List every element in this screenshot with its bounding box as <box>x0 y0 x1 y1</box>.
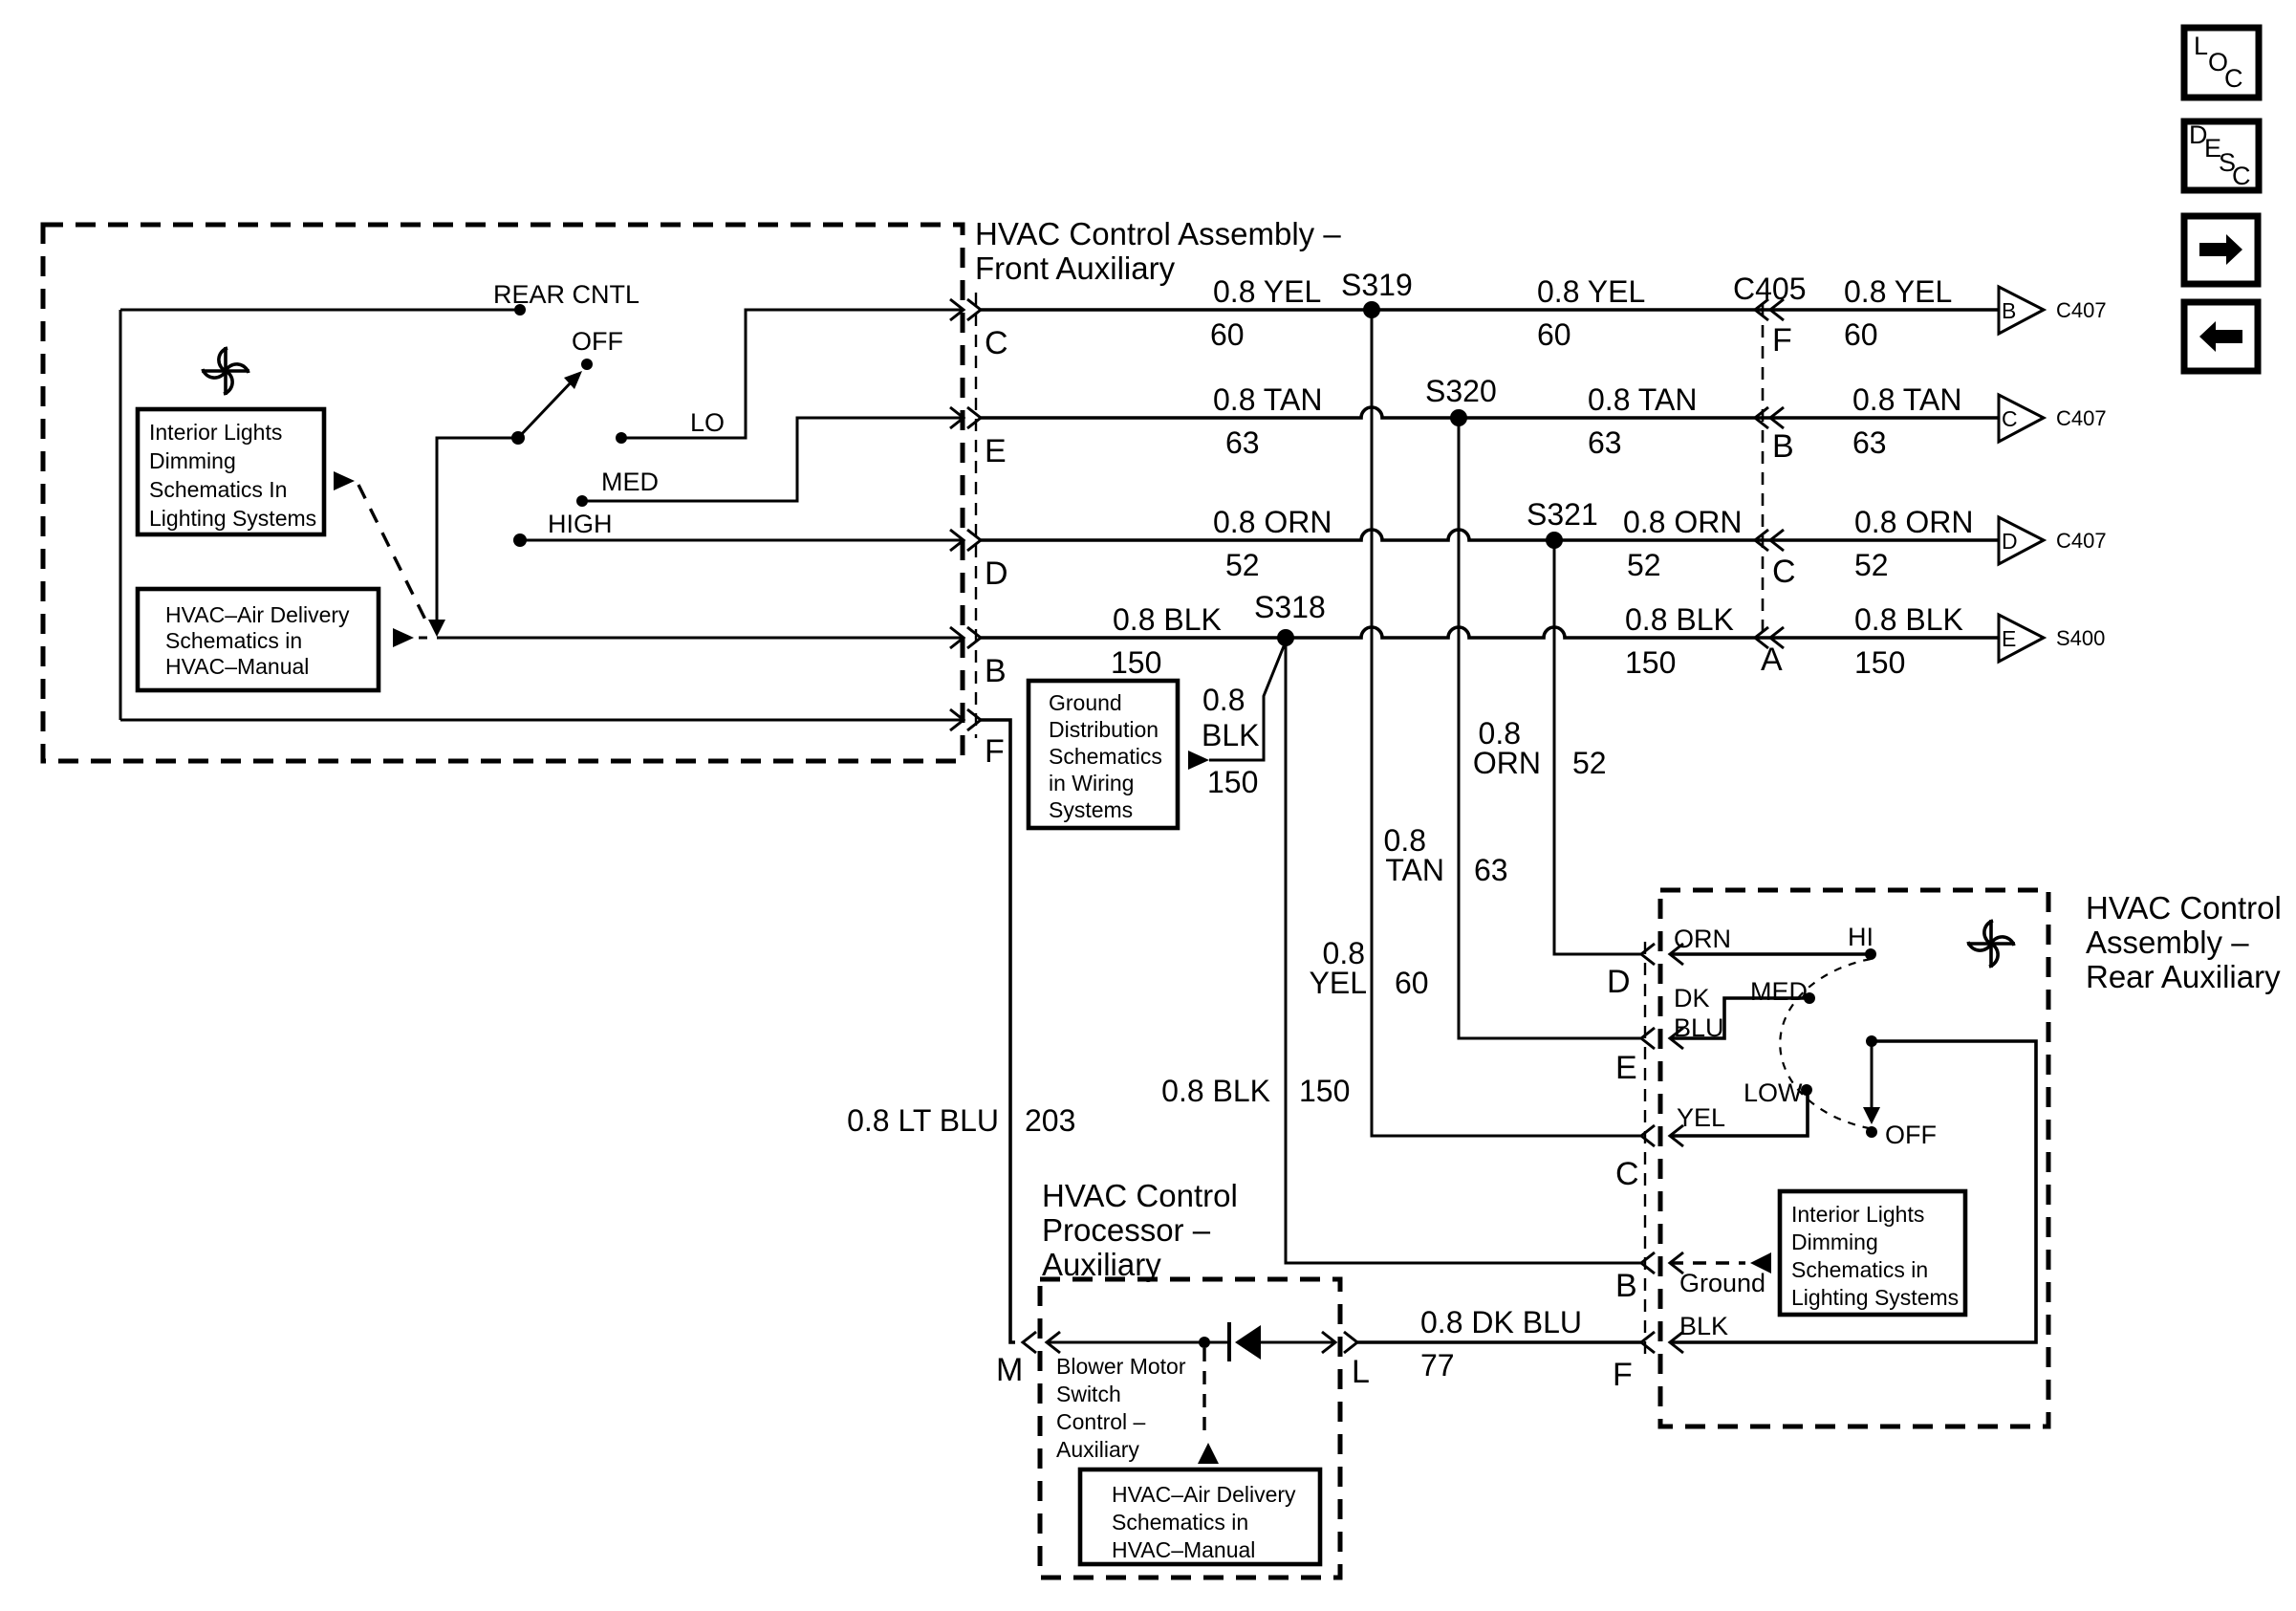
svg-text:C407: C407 <box>2056 529 2107 553</box>
node HIGH terminal dot <box>513 533 527 547</box>
switch wiper arrowhead front <box>564 371 582 389</box>
svg-text:TAN: TAN <box>1385 853 1444 887</box>
svg-text:HVAC Control: HVAC Control <box>2086 890 2282 925</box>
svg-text:150: 150 <box>1854 645 1905 680</box>
L pin chevrons <box>1322 1332 1357 1353</box>
title HVAC Control Assembly - Front Auxiliary <box>975 216 1341 286</box>
svg-text:Switch: Switch <box>1056 1382 1121 1406</box>
riser label 0.8 LT BLU 203 <box>847 1103 1075 1138</box>
rear box connector dashed line <box>1644 942 1646 1358</box>
ref triangle from interior lights box <box>334 471 355 490</box>
svg-text:52: 52 <box>1225 548 1260 582</box>
triangle connector B to C407 <box>1999 287 2107 334</box>
svg-text:MED: MED <box>601 468 659 496</box>
legend box DESC <box>2184 120 2259 190</box>
svg-text:in Wiring: in Wiring <box>1049 771 1134 795</box>
svg-text:OFF: OFF <box>1885 1121 1937 1149</box>
node OFF terminal dot (front switch) <box>581 359 593 370</box>
svg-text:S400: S400 <box>2056 626 2105 650</box>
wire dk blu L to rear F <box>1357 1340 1641 1344</box>
splice S318 <box>1277 629 1294 646</box>
svg-text:C: C <box>1772 554 1796 590</box>
svg-text:F: F <box>1772 322 1792 359</box>
svg-text:0.8 BLK: 0.8 BLK <box>1161 1074 1270 1108</box>
svg-text:ORN: ORN <box>1473 746 1541 780</box>
dashed ground ref line <box>1670 1261 1745 1264</box>
rear aux dashed box <box>1660 890 2048 1426</box>
svg-text:Auxiliary: Auxiliary <box>1056 1437 1139 1462</box>
svg-text:HVAC–Air Delivery: HVAC–Air Delivery <box>165 602 350 627</box>
legend box right arrow <box>2184 216 2258 284</box>
svg-text:LO: LO <box>690 408 725 437</box>
svg-text:C: C <box>2002 406 2018 431</box>
hvac air delivery box bottom <box>1080 1469 1320 1564</box>
svg-text:Blower Motor: Blower Motor <box>1056 1354 1186 1379</box>
svg-text:C: C <box>985 325 1008 361</box>
wire switch common to vertical <box>437 438 518 621</box>
wire rear cntl horizontal <box>120 309 520 312</box>
svg-text:0.8 BLK: 0.8 BLK <box>1113 602 1222 637</box>
riser label 0.8 TAN 63 <box>1384 823 1508 887</box>
svg-text:HIGH: HIGH <box>548 510 613 538</box>
off-arm arrowhead <box>1863 1107 1880 1124</box>
svg-text:63: 63 <box>1852 425 1887 460</box>
svg-text:E: E <box>1615 1050 1637 1086</box>
dashed reference diagonal <box>358 485 427 623</box>
C405 chevrons on wire C <box>1755 299 1784 320</box>
wire B blk main (hops at 1435,1526,1626) <box>981 627 1999 638</box>
svg-text:Interior Lights: Interior Lights <box>149 420 282 445</box>
front box connector dashed line <box>975 293 977 738</box>
svg-text:Assembly –: Assembly – <box>2086 925 2249 960</box>
svg-text:Front Auxiliary: Front Auxiliary <box>975 250 1176 286</box>
processor dashed box <box>1040 1279 1340 1578</box>
wire rear C to LOW <box>1670 1090 1808 1136</box>
node MED terminal dot <box>576 495 588 507</box>
svg-text:150: 150 <box>1207 765 1258 799</box>
svg-text:F: F <box>985 733 1005 770</box>
svg-text:Lighting Systems: Lighting Systems <box>1791 1285 1959 1310</box>
svg-text:0.8 YEL: 0.8 YEL <box>1537 274 1645 309</box>
hvac air delivery box front <box>138 589 379 690</box>
switch wiper arm front <box>518 379 574 438</box>
svg-text:OFF: OFF <box>572 327 623 356</box>
wire B interior <box>437 637 964 640</box>
svg-text:B: B <box>2002 298 2016 323</box>
svg-text:0.8 LT BLU: 0.8 LT BLU <box>847 1103 999 1138</box>
ground distribution text <box>1049 690 1162 822</box>
C405 chevrons on wire E <box>1755 407 1784 428</box>
blk riser from S318 to rear pin B wire <box>1286 638 1641 1263</box>
legend box left arrow <box>2184 302 2258 371</box>
svg-text:S318: S318 <box>1254 590 1326 624</box>
svg-text:0.8 YEL: 0.8 YEL <box>1213 274 1321 309</box>
svg-text:S320: S320 <box>1425 374 1497 408</box>
interior lights dimming box rear <box>1780 1191 1965 1315</box>
svg-text:BLK: BLK <box>1202 718 1259 752</box>
label DK BLU rear <box>1674 984 1724 1042</box>
svg-text:0.8 YEL: 0.8 YEL <box>1844 274 1952 309</box>
svg-text:52: 52 <box>1854 548 1889 582</box>
svg-text:203: 203 <box>1025 1103 1075 1138</box>
wire HIGH to pin D <box>520 539 964 542</box>
svg-text:Schematics in: Schematics in <box>165 628 302 653</box>
lt blu riser from pin F <box>981 720 1015 1342</box>
svg-text:63: 63 <box>1588 425 1622 460</box>
svg-text:Distribution: Distribution <box>1049 717 1159 742</box>
svg-text:A: A <box>1761 642 1783 678</box>
ref triangle ground <box>1750 1252 1771 1274</box>
rear pin B chevrons <box>1641 1252 1683 1274</box>
orn riser from S321 to rear pin D <box>1554 540 1641 954</box>
node LOW dot <box>1801 1084 1812 1096</box>
svg-text:HVAC–Manual: HVAC–Manual <box>1112 1537 1255 1562</box>
hvac air delivery text front <box>165 602 350 679</box>
svg-text:Dimming: Dimming <box>1791 1230 1878 1254</box>
svg-text:Ground: Ground <box>1679 1269 1765 1297</box>
svg-text:0.8 ORN: 0.8 ORN <box>1213 505 1332 539</box>
svg-text:MED: MED <box>1750 977 1808 1006</box>
svg-text:YEL: YEL <box>1310 966 1367 1000</box>
triangle connector E to S400 <box>1999 615 2105 662</box>
svg-text:E: E <box>985 433 1007 469</box>
svg-text:ORN: ORN <box>1674 925 1731 953</box>
wire rear E to MED <box>1670 998 1809 1038</box>
front pin chevrons F <box>950 709 981 730</box>
svg-text:C: C <box>2224 64 2243 93</box>
wire rear D to HI <box>1670 952 1871 956</box>
rear switch dashed arc <box>1780 959 1871 1128</box>
rear pin C chevrons <box>1641 1125 1683 1146</box>
title HVAC Control Processor - Auxiliary <box>1042 1178 1238 1282</box>
node LO terminal dot <box>616 432 627 444</box>
svg-text:Lighting Systems: Lighting Systems <box>149 506 316 531</box>
node switch common dot front <box>511 431 525 445</box>
svg-text:0.8 TAN: 0.8 TAN <box>1213 382 1322 417</box>
rear pin E chevrons <box>1641 1028 1683 1049</box>
svg-text:C: C <box>2232 162 2251 190</box>
svg-text:60: 60 <box>1395 966 1429 1000</box>
wire MED to pin E <box>582 418 964 501</box>
C405 chevrons on wire D <box>1755 530 1784 551</box>
svg-text:Dimming: Dimming <box>149 448 236 473</box>
svg-text:Ground: Ground <box>1049 690 1122 715</box>
arrowhead down at junction B <box>428 620 445 637</box>
ref triangle from ground box <box>1188 751 1209 770</box>
connector C405 dashed line <box>1762 304 1765 641</box>
svg-text:Interior Lights: Interior Lights <box>1791 1202 1924 1227</box>
svg-text:Schematics In: Schematics In <box>149 477 287 502</box>
svg-text:Auxiliary: Auxiliary <box>1042 1247 1161 1282</box>
svg-text:HI: HI <box>1848 923 1874 951</box>
splice S321 <box>1546 532 1563 549</box>
node REAR CNTL terminal dot <box>514 304 526 316</box>
M pin chevrons <box>1023 1332 1060 1353</box>
interior lights dimming box front <box>138 409 324 534</box>
front HVAC control assembly dashed box <box>43 225 963 761</box>
front pin chevrons E <box>950 407 981 428</box>
wire off-arm to rear F <box>1670 1041 2036 1342</box>
svg-text:HVAC Control Assembly –: HVAC Control Assembly – <box>975 216 1341 251</box>
svg-text:B: B <box>985 653 1007 689</box>
wire LO to pin C <box>621 310 964 438</box>
node OFF dot rear <box>1866 1126 1877 1138</box>
svg-text:L: L <box>1352 1354 1370 1390</box>
tan riser from S320 to rear pin E <box>1459 418 1641 1038</box>
ref triangle from hvac air box <box>393 628 414 647</box>
ref triangle up <box>1198 1443 1219 1464</box>
svg-text:BLK: BLK <box>1679 1312 1728 1340</box>
wire ground ref to S318 <box>1209 642 1286 760</box>
svg-text:Control –: Control – <box>1056 1409 1146 1434</box>
svg-text:0.8 BLK: 0.8 BLK <box>1625 602 1734 637</box>
wire E tan main (hop at 1435) <box>981 407 1999 418</box>
wire diode to L <box>1261 1341 1335 1344</box>
svg-text:63: 63 <box>1225 425 1260 460</box>
svg-text:0.8 BLK: 0.8 BLK <box>1854 602 1963 637</box>
svg-text:Processor –: Processor – <box>1042 1212 1211 1248</box>
svg-text:C407: C407 <box>2056 406 2107 430</box>
hvac air delivery text bottom <box>1112 1482 1296 1562</box>
svg-text:C: C <box>1615 1156 1639 1192</box>
svg-text:60: 60 <box>1844 317 1878 352</box>
svg-text:L: L <box>2194 32 2208 60</box>
svg-text:0.8 TAN: 0.8 TAN <box>1588 382 1697 417</box>
rear pin F chevrons <box>1641 1332 1683 1353</box>
C405 chevrons on wire B <box>1755 627 1784 648</box>
ground distribution box <box>1029 681 1178 828</box>
front pin chevrons B <box>950 627 981 648</box>
svg-text:C405: C405 <box>1733 272 1807 306</box>
interior lights dimming text front <box>149 420 316 531</box>
svg-text:LOW: LOW <box>1744 1078 1803 1107</box>
svg-text:150: 150 <box>1111 645 1161 680</box>
dashed ref line from diode tap <box>1202 1348 1205 1436</box>
splice S320 <box>1450 409 1467 426</box>
svg-text:60: 60 <box>1210 317 1245 352</box>
svg-text:0.8 ORN: 0.8 ORN <box>1854 505 1973 539</box>
off-arm arrow line <box>1871 1041 1874 1109</box>
svg-text:HVAC Control: HVAC Control <box>1042 1178 1238 1213</box>
fan icon rear <box>1967 920 2015 968</box>
wire F interior <box>120 719 964 722</box>
rear pin D chevrons <box>1641 944 1683 965</box>
triangle connector C to C407 <box>1999 395 2107 442</box>
interior lights dimming text rear <box>1791 1202 1959 1310</box>
blower motor switch control text <box>1056 1354 1186 1462</box>
svg-text:S319: S319 <box>1341 268 1413 302</box>
svg-text:77: 77 <box>1420 1348 1455 1382</box>
svg-text:0.8: 0.8 <box>1202 683 1245 717</box>
svg-text:60: 60 <box>1537 317 1571 352</box>
title HVAC Control Assembly - Rear Auxiliary <box>2086 890 2282 994</box>
front pin chevrons D <box>950 530 981 551</box>
svg-text:E: E <box>2002 626 2016 651</box>
node off-arm dot <box>1866 1035 1877 1047</box>
node diode tap dot <box>1199 1337 1210 1348</box>
svg-text:HVAC–Air Delivery: HVAC–Air Delivery <box>1112 1482 1296 1507</box>
svg-text:B: B <box>1772 428 1794 465</box>
svg-text:C407: C407 <box>2056 298 2107 322</box>
svg-text:S321: S321 <box>1527 497 1598 532</box>
svg-text:Schematics in: Schematics in <box>1791 1257 1928 1282</box>
node HI dot <box>1865 948 1876 960</box>
svg-text:YEL: YEL <box>1677 1103 1725 1132</box>
node MED dot rear <box>1804 992 1815 1004</box>
svg-text:Schematics in: Schematics in <box>1112 1510 1248 1535</box>
riser label 0.8 YEL 60 <box>1310 936 1429 1000</box>
fan icon front <box>202 347 249 395</box>
svg-text:150: 150 <box>1625 645 1676 680</box>
svg-text:DK: DK <box>1674 984 1710 1012</box>
svg-text:0.8 TAN: 0.8 TAN <box>1852 382 1961 417</box>
wire D orn main (hops at 1435,1526) <box>981 530 1999 540</box>
svg-text:F: F <box>1613 1357 1633 1393</box>
riser label 0.8 BLK 150 <box>1161 1074 1350 1108</box>
svg-text:D: D <box>1607 964 1631 1000</box>
ref dash to junction <box>419 637 427 640</box>
svg-text:D: D <box>985 555 1008 592</box>
svg-text:Rear Auxiliary: Rear Auxiliary <box>2086 959 2281 994</box>
yel riser from S319 to rear pin C <box>1372 310 1641 1136</box>
wire rear cntl left vertical <box>119 310 122 720</box>
svg-text:52: 52 <box>1572 746 1607 780</box>
legend box LOC <box>2184 28 2259 98</box>
svg-text:Systems: Systems <box>1049 797 1133 822</box>
svg-text:Schematics: Schematics <box>1049 744 1162 769</box>
svg-text:B: B <box>1615 1268 1637 1304</box>
splice S319 <box>1363 301 1380 318</box>
wire C yel main <box>981 308 1999 312</box>
front pin chevrons C <box>950 299 981 320</box>
svg-text:0.8 ORN: 0.8 ORN <box>1623 505 1742 539</box>
svg-text:150: 150 <box>1299 1074 1350 1108</box>
svg-text:HVAC–Manual: HVAC–Manual <box>165 654 309 679</box>
svg-text:D: D <box>2002 529 2018 554</box>
riser label 0.8 ORN 52 <box>1473 716 1607 780</box>
svg-text:0.8 DK BLU: 0.8 DK BLU <box>1420 1305 1582 1339</box>
diode D1 <box>1229 1322 1261 1361</box>
svg-text:M: M <box>996 1352 1023 1388</box>
wire M to diode <box>1047 1341 1229 1344</box>
svg-text:63: 63 <box>1474 853 1508 887</box>
svg-text:REAR CNTL: REAR CNTL <box>493 280 639 309</box>
triangle connector D to C407 <box>1999 517 2107 564</box>
svg-text:52: 52 <box>1627 548 1661 582</box>
